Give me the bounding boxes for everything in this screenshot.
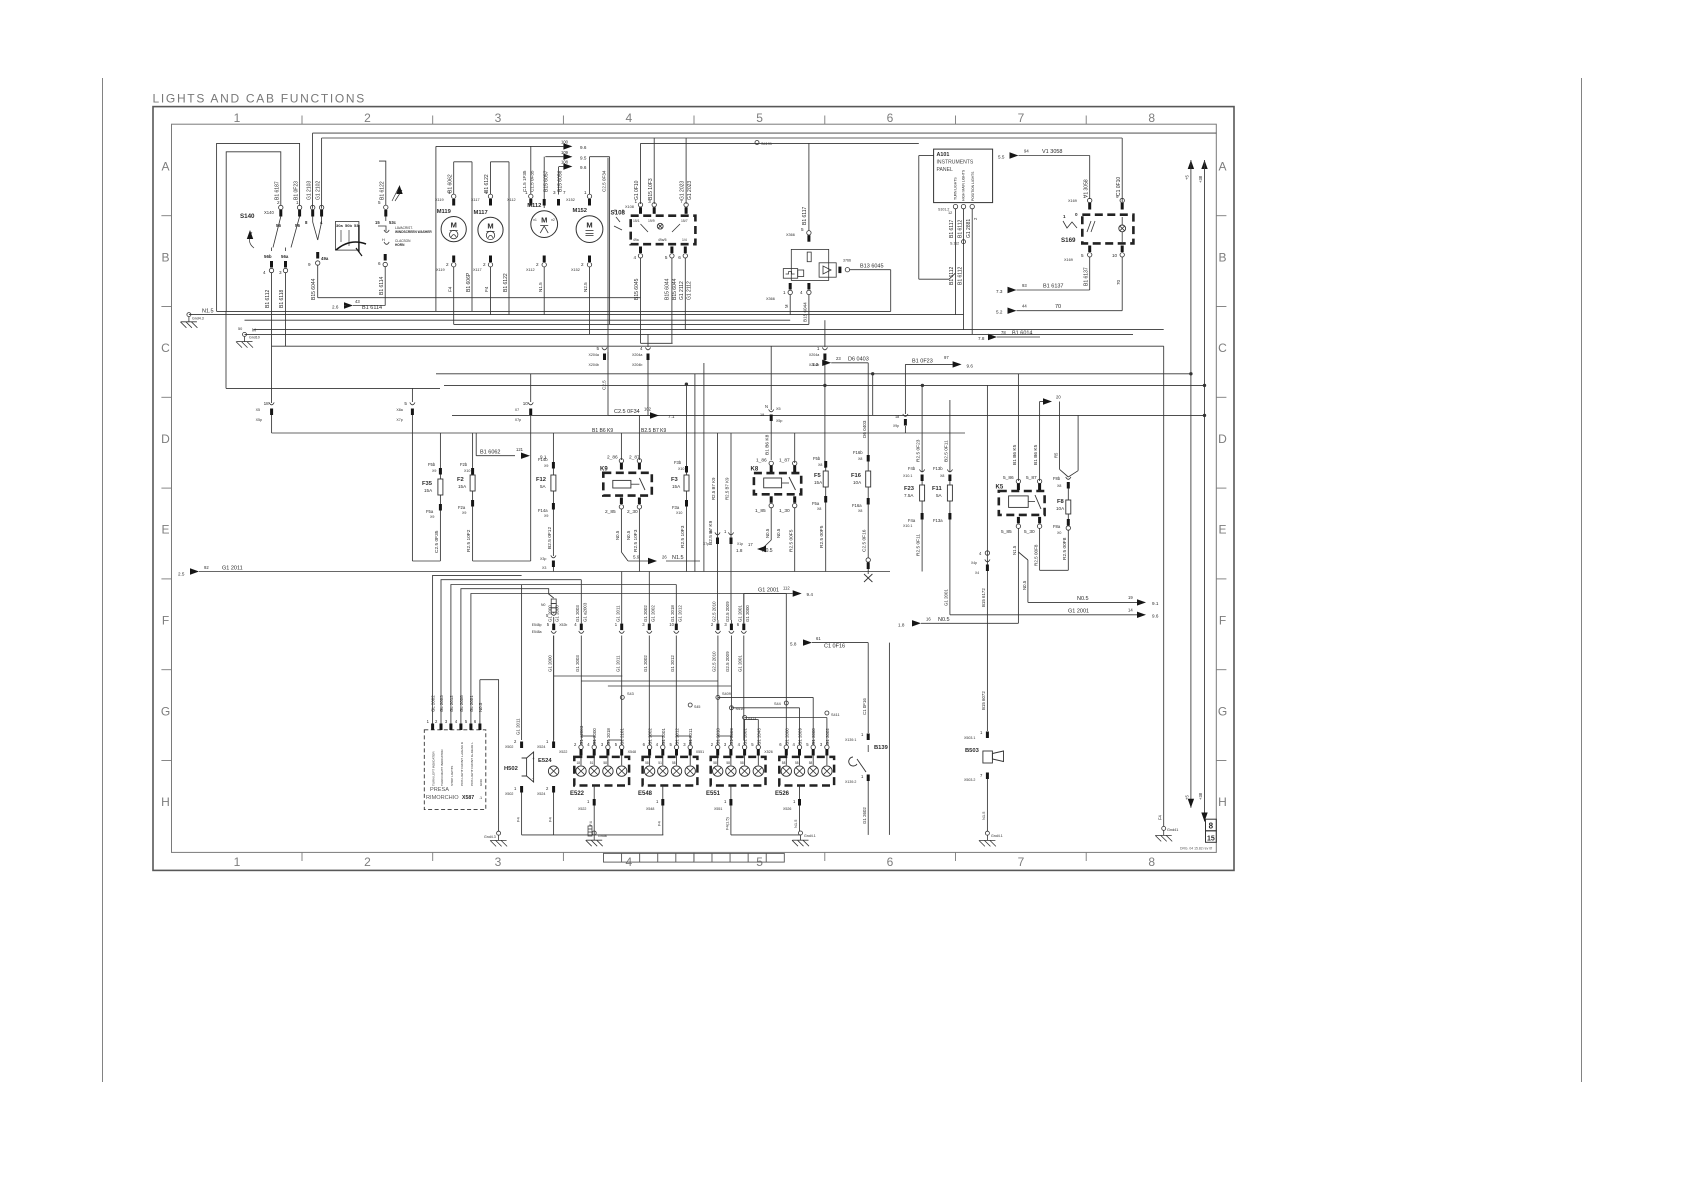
band cross links: [554, 675, 623, 677]
svg-text:S43: S43: [627, 692, 634, 696]
svg-text:M: M: [451, 221, 457, 230]
svg-text:B1 6112: B1 6112: [949, 267, 955, 285]
svg-text:G1 2881: G1 2881: [966, 219, 972, 238]
svg-text:G1 2018: G1 2018: [606, 728, 611, 745]
wire B1 6112: [271, 273, 273, 403]
svg-text:53c: 53c: [389, 220, 397, 225]
M152 feed wires: [590, 156, 610, 158]
long verticals G2.5: [717, 433, 719, 620]
svg-text:1_85: 1_85: [755, 508, 766, 514]
svg-text:C1 0F16: C1 0F16: [862, 698, 867, 715]
svg-text:15A: 15A: [424, 488, 433, 493]
svg-text:X8: X8: [1057, 484, 1061, 488]
svg-text:X9: X9: [432, 469, 436, 473]
svg-text:Gnd4.3: Gnd4.3: [484, 835, 496, 839]
svg-text:B1 6114: B1 6114: [379, 277, 385, 295]
svg-text:5_87: 5_87: [1026, 475, 1037, 481]
svg-text:15A: 15A: [672, 484, 681, 489]
svg-text:4: 4: [634, 255, 637, 260]
svg-text:100: 100: [561, 140, 569, 145]
svg-text:3: 3: [553, 190, 556, 195]
motor M112: [531, 211, 558, 238]
svg-text:X1p: X1p: [737, 542, 743, 546]
svg-text:X8: X8: [940, 474, 944, 478]
svg-text:B1 6137: B1 6137: [1084, 267, 1090, 286]
svg-text:E548p: E548p: [532, 623, 542, 627]
svg-text:H: H: [161, 795, 170, 809]
svg-text:+38: +38: [1198, 175, 1203, 183]
svg-text:S169: S169: [1061, 237, 1076, 244]
svg-text:70: 70: [1116, 279, 1121, 285]
svg-text:X9p: X9p: [893, 424, 899, 428]
svg-text:E526: E526: [775, 791, 790, 797]
svg-text:B15 6045: B15 6045: [634, 278, 640, 300]
svg-text:G2.5 2009: G2.5 2009: [725, 601, 730, 622]
svg-text:M119: M119: [437, 209, 452, 215]
svg-text:G1 2011: G1 2011: [222, 565, 243, 571]
svg-text:F8b: F8b: [1053, 476, 1061, 481]
svg-text:F16b: F16b: [853, 450, 863, 455]
PRESA feeder wire 6: [479, 680, 481, 724]
S108 bottom pins: [639, 247, 642, 254]
wire bus C7: [272, 345, 1164, 347]
svg-text:58: 58: [726, 761, 730, 765]
arrow 109 9.5: [545, 156, 563, 158]
svg-text:16: 16: [926, 617, 931, 622]
svg-text:G1 2001: G1 2001: [944, 589, 949, 606]
svg-text:0: 0: [1075, 212, 1078, 217]
svg-text:E551: E551: [706, 791, 721, 797]
wire bus y143.4: [641, 142, 919, 144]
junction S4191: [755, 141, 759, 145]
flasher output wire B13 6045: [838, 267, 841, 274]
svg-text:X9: X9: [430, 515, 434, 519]
svg-text:S4191: S4191: [761, 142, 772, 146]
svg-text:X551: X551: [714, 807, 722, 811]
fuse F5: [825, 462, 827, 468]
svg-text:G1 2101: G1 2101: [620, 728, 625, 745]
svg-text:n2: n2: [551, 218, 555, 222]
svg-text:X9: X9: [544, 514, 548, 518]
svg-text:X117: X117: [473, 268, 482, 272]
svg-text:N0.5: N0.5: [478, 702, 483, 712]
svg-text:B1 B6 K5: B1 B6 K5: [1012, 444, 1018, 465]
svg-text:G1 2103: G1 2103: [307, 181, 313, 200]
svg-text:C1.5 0F35: C1.5 0F35: [530, 170, 535, 192]
wire bus C6 M: [245, 333, 1134, 335]
fuse F11: [949, 400, 951, 472]
svg-text:F2b: F2b: [460, 462, 468, 467]
svg-text:R2.5 0F23: R2.5 0F23: [916, 439, 922, 462]
lamp cluster E522: [574, 757, 629, 786]
svg-text:9.6: 9.6: [580, 165, 587, 170]
svg-text:F3: F3: [671, 477, 679, 483]
svg-text:R2.5 0F11: R2.5 0F11: [916, 534, 922, 556]
svg-text:94: 94: [1024, 149, 1029, 154]
svg-text:X5p: X5p: [256, 418, 262, 422]
S169 lamp: [1119, 225, 1126, 232]
svg-text:X204a: X204a: [589, 353, 599, 357]
svg-text:112: 112: [783, 585, 790, 590]
svg-text:5: 5: [378, 200, 381, 205]
svg-text:1: 1: [1063, 214, 1066, 219]
svg-text:18: 18: [577, 761, 581, 765]
svg-text:X10: X10: [464, 469, 470, 473]
svg-text:F16: F16: [851, 473, 862, 479]
svg-text:R2.5 00F8: R2.5 00F8: [1062, 537, 1068, 560]
svg-text:7.5A: 7.5A: [904, 493, 914, 498]
arrow B1 6114 2.6: [353, 305, 385, 307]
svg-text:G1 2000: G1 2000: [784, 728, 789, 745]
svg-text:6: 6: [678, 255, 681, 260]
svg-text:N2.5: N2.5: [583, 282, 588, 292]
svg-text:3: 3: [495, 111, 502, 125]
wire bus C11: [452, 414, 1205, 416]
svg-text:B15 6056: B15 6056: [558, 170, 564, 192]
svg-text:7.1: 7.1: [668, 414, 675, 419]
svg-text:M: M: [784, 304, 789, 308]
svg-text:G1 2002: G1 2002: [650, 605, 655, 622]
svg-text:B1 6062: B1 6062: [448, 174, 454, 193]
svg-text:M: M: [586, 221, 592, 230]
svg-text:F4: F4: [516, 817, 521, 822]
svg-text:10: 10: [523, 401, 529, 406]
page edge line left: [102, 78, 104, 1082]
svg-text:N1.5: N1.5: [202, 308, 214, 314]
E526 feeders: [785, 594, 787, 746]
svg-text:5A: 5A: [540, 484, 547, 489]
svg-text:B15 6044: B15 6044: [665, 278, 671, 300]
svg-text:1: 1: [817, 346, 820, 351]
svg-text:5.8: 5.8: [790, 642, 797, 647]
svg-text:X10.1: X10.1: [903, 524, 912, 528]
svg-text:X7p: X7p: [515, 418, 521, 422]
svg-text:4: 4: [800, 290, 803, 295]
E548 fan wires: [648, 740, 650, 745]
svg-text:G1 2011: G1 2011: [616, 605, 621, 622]
svg-text:X8: X8: [817, 507, 821, 511]
svg-text:GL 2012: GL 2012: [449, 695, 454, 712]
wire bus C12: [272, 432, 965, 434]
svg-text:B1 6112: B1 6112: [958, 220, 964, 238]
junction S409: [716, 695, 720, 699]
svg-text:G2.5 2010: G2.5 2010: [712, 601, 717, 622]
svg-text:G1 2012: G1 2012: [677, 605, 682, 622]
svg-text:M: M: [541, 216, 547, 225]
svg-text:G1 2043: G1 2043: [756, 728, 761, 745]
svg-text:S140: S140: [240, 213, 255, 220]
svg-text:2.6: 2.6: [332, 305, 339, 310]
M117 feed wires: [491, 161, 510, 163]
svg-text:C2.5: C2.5: [602, 380, 607, 390]
svg-text:F4a: F4a: [908, 518, 916, 523]
svg-text:4: 4: [626, 111, 633, 125]
svg-text:B1 6062: B1 6062: [480, 449, 501, 455]
washer contact: [378, 226, 386, 231]
svg-text:N0.5: N0.5: [776, 528, 781, 538]
svg-text:F8a: F8a: [1053, 524, 1061, 529]
svg-text:M112: M112: [527, 203, 541, 209]
relay K9: [603, 473, 652, 496]
svg-text:X548: X548: [646, 807, 654, 811]
svg-text:X526: X526: [783, 807, 791, 811]
svg-text:109: 109: [561, 150, 569, 155]
svg-text:F2a: F2a: [458, 505, 466, 510]
svg-text:15/1: 15/1: [633, 219, 640, 223]
svg-text:7: 7: [1018, 855, 1025, 869]
svg-text:1: 1: [234, 111, 241, 125]
svg-text:X7p: X7p: [396, 418, 402, 422]
svg-text:Gnd4.1: Gnd4.1: [804, 834, 816, 838]
svg-text:Gnd8: Gnd8: [598, 834, 607, 838]
svg-text:19: 19: [1128, 595, 1133, 600]
svg-text:B15 6044: B15 6044: [311, 278, 317, 300]
svg-text:X548: X548: [628, 750, 636, 754]
svg-text:1.8: 1.8: [898, 622, 905, 627]
svg-text:9.6: 9.6: [1152, 614, 1159, 619]
svg-text:K5: K5: [996, 485, 1004, 491]
svg-text:G1 2102: G1 2102: [316, 181, 322, 200]
svg-text:1_86: 1_86: [756, 458, 767, 464]
dashed lever arrows: [392, 187, 399, 201]
svg-text:2: 2: [581, 262, 584, 267]
bottom cell strip: [604, 853, 785, 862]
svg-text:X3p: X3p: [540, 557, 546, 561]
svg-text:Gnd10: Gnd10: [249, 336, 260, 340]
arrow C2.5 0F34: [608, 415, 650, 417]
svg-text:5.5: 5.5: [998, 155, 1005, 160]
svg-text:15A: 15A: [458, 484, 467, 489]
svg-text:G1 2000: G1 2000: [548, 655, 553, 672]
svg-text:A: A: [1218, 160, 1226, 174]
svg-text:H502: H502: [504, 766, 518, 772]
svg-text:F5b: F5b: [813, 456, 821, 461]
svg-text:HORN: HORN: [395, 243, 405, 247]
junction circles top lamps: [743, 716, 747, 720]
fuse F35: [439, 433, 441, 468]
svg-text:F8: F8: [1057, 499, 1065, 505]
wire bus C1: [217, 310, 891, 312]
svg-text:F2: F2: [457, 477, 464, 483]
wire bus C9: [444, 384, 1205, 386]
svg-text:108: 108: [561, 160, 569, 165]
svg-text:X8: X8: [818, 463, 822, 467]
svg-text:5: 5: [404, 401, 407, 406]
svg-text:5: 5: [801, 227, 804, 232]
svg-text:N1.5: N1.5: [672, 555, 684, 561]
S108 wires down: [640, 258, 642, 343]
svg-text:5: 5: [597, 346, 600, 351]
svg-text:N1.5: N1.5: [538, 282, 543, 292]
svg-text:9.6: 9.6: [967, 363, 974, 368]
wire bus C10: [226, 387, 440, 389]
fuse F8: [1039, 402, 1041, 482]
nested route 1: [433, 575, 522, 723]
E551 fan wires: [717, 740, 719, 745]
svg-text:51: 51: [658, 761, 662, 765]
svg-text:G1 2001: G1 2001: [758, 588, 779, 594]
S140 inner loop wire: [226, 152, 281, 312]
svg-text:S411: S411: [831, 713, 840, 717]
svg-text:.1: .1: [479, 796, 482, 800]
arrow 108 9.6: [559, 166, 563, 168]
svg-text:3766: 3766: [843, 259, 851, 263]
svg-text:9.4: 9.4: [807, 592, 814, 597]
fuse F16: [867, 363, 869, 455]
svg-text:S.112: S.112: [950, 242, 959, 246]
wire bus C3: [245, 319, 791, 321]
svg-text:X204b: X204b: [589, 363, 599, 367]
svg-text:POS LIGHT FRONT L+REAR R: POS LIGHT FRONT L+REAR R: [460, 741, 464, 786]
svg-text:61: 61: [816, 636, 821, 641]
svg-text:F3a: F3a: [672, 505, 680, 510]
svg-text:1_87: 1_87: [779, 458, 790, 464]
junction dots right verticals: [1189, 372, 1192, 375]
svg-text:3: 3: [495, 855, 502, 869]
svg-text:X5p: X5p: [776, 419, 782, 423]
lamp cluster E548: [643, 757, 698, 786]
svg-text:RIMORCHIO: RIMORCHIO: [426, 795, 459, 801]
wire G1 2001 column: [743, 594, 745, 624]
svg-text:M: M: [252, 328, 256, 333]
svg-text:H: H: [1218, 795, 1227, 809]
svg-text:2_86: 2_86: [607, 455, 618, 461]
S108 lamp: [657, 223, 663, 229]
svg-text:B15 6057: B15 6057: [544, 170, 550, 192]
relay K8: [754, 473, 801, 494]
svg-text:N0.5: N0.5: [626, 530, 631, 540]
svg-text:2: 2: [446, 262, 449, 267]
svg-text:E522: E522: [570, 791, 585, 797]
svg-text:B1 B6 K5: B1 B6 K5: [1033, 444, 1039, 465]
arrow N1.5 26: [628, 560, 648, 562]
svg-text:C2.5 0F34: C2.5 0F34: [602, 170, 607, 192]
svg-text:10A: 10A: [1056, 506, 1065, 511]
svg-text:C: C: [161, 341, 170, 355]
svg-text:X4: X4: [975, 571, 979, 575]
svg-text:G1 2001: G1 2001: [738, 655, 743, 672]
svg-text:F4: F4: [448, 286, 453, 292]
svg-text:X119: X119: [435, 198, 444, 202]
svg-text:B1 606P: B1 606P: [466, 272, 472, 292]
svg-text:X503.1: X503.1: [964, 736, 975, 740]
svg-text:A: A: [161, 160, 169, 174]
svg-text:G1 2023: G1 2023: [680, 181, 686, 200]
svg-text:2: 2: [536, 262, 539, 267]
svg-text:TURN RIGHT INDICATOR: TURN RIGHT INDICATOR: [440, 749, 444, 786]
svg-text:+: +: [532, 756, 535, 761]
svg-text:X4p: X4p: [971, 561, 977, 565]
wire +5 vertical right: [1188, 160, 1194, 169]
svg-text:E524: E524: [538, 758, 552, 764]
svg-text:X0: X0: [1057, 531, 1061, 535]
svg-text:2_87: 2_87: [629, 455, 640, 461]
junction S44 S411: [784, 701, 788, 705]
svg-text:G1 2003: G1 2003: [575, 605, 580, 622]
sheet number boxes: [1206, 819, 1217, 831]
svg-text:F4b: F4b: [908, 466, 916, 471]
svg-text:14: 14: [1128, 608, 1133, 613]
wire B1 6137 down: [1089, 257, 1091, 290]
fuse F23: [921, 385, 923, 472]
wire bus N1.5: [189, 314, 964, 316]
svg-text:F4: F4: [1158, 814, 1163, 820]
nested route 5: [471, 594, 786, 724]
svg-text:X551: X551: [696, 750, 704, 754]
svg-text:4: 4: [263, 270, 266, 275]
svg-text:58: 58: [713, 761, 717, 765]
svg-text:58: 58: [672, 761, 676, 765]
arrow G1 2001 14 9.6: [950, 614, 1137, 616]
svg-text:B1 0F23: B1 0F23: [294, 181, 300, 200]
svg-text:2: 2: [483, 262, 486, 267]
wire +38 vertical right: [1201, 160, 1207, 169]
svg-text:G1 2000: G1 2000: [548, 605, 553, 622]
svg-text:8: 8: [1209, 822, 1214, 831]
svg-text:B1 B6 K8: B1 B6 K8: [765, 434, 771, 455]
svg-text:D: D: [1218, 432, 1227, 446]
wire verticals to lamp pins: [553, 700, 555, 740]
svg-text:F13a: F13a: [933, 518, 943, 523]
ground top left 1: [188, 317, 190, 322]
svg-text:30a: 30a: [336, 223, 343, 228]
svg-text:G1 2001: G1 2001: [738, 605, 743, 622]
svg-text:Gnd4.3: Gnd4.3: [192, 317, 204, 321]
svg-text:F23: F23: [904, 486, 915, 492]
svg-text:X152: X152: [571, 268, 580, 272]
svg-text:G1 2002: G1 2002: [643, 605, 648, 622]
wire B15 6072 B503: [986, 385, 988, 731]
svg-text:15: 15: [1207, 835, 1215, 842]
svg-text:X204b: X204b: [632, 363, 642, 367]
svg-text:G1 2001: G1 2001: [743, 728, 748, 745]
svg-text:56b: 56b: [264, 254, 272, 259]
connector stack X5: [551, 599, 556, 603]
svg-text:19/9: 19/9: [648, 219, 655, 223]
svg-text:PRESA: PRESA: [430, 787, 449, 793]
svg-text:N1.5: N1.5: [981, 811, 986, 820]
svg-text:X3: X3: [542, 566, 546, 570]
svg-text:58: 58: [782, 761, 786, 765]
svg-text:6: 6: [378, 261, 381, 266]
svg-text:B503: B503: [965, 748, 980, 754]
junction S410: [729, 706, 733, 710]
svg-text:STOP LIGHTS: STOP LIGHTS: [450, 766, 454, 786]
svg-text:E: E: [161, 523, 169, 537]
wire B15 6044 left: [317, 265, 319, 298]
svg-text:49a: 49a: [633, 238, 639, 242]
A101 left loop wire: [919, 155, 934, 157]
svg-text:F14b: F14b: [538, 457, 548, 462]
svg-text:R2.5 B7 K9: R2.5 B7 K9: [725, 477, 730, 500]
sensor B503: [983, 751, 993, 763]
svg-text:F5a: F5a: [426, 509, 434, 514]
svg-text:58: 58: [809, 761, 813, 765]
svg-text:X366: X366: [786, 233, 795, 237]
svg-text:INSTRUMENTS: INSTRUMENTS: [937, 160, 974, 166]
svg-text:G2.5 2010: G2.5 2010: [712, 651, 717, 672]
svg-text:B1 6112: B1 6112: [958, 267, 964, 285]
svg-text:5.2: 5.2: [996, 310, 1003, 315]
svg-text:X152: X152: [566, 198, 575, 202]
svg-text:F13b: F13b: [933, 466, 943, 471]
svg-text:n1: n1: [533, 218, 537, 222]
svg-text:49a: 49a: [321, 256, 329, 261]
svg-text:B15 6072: B15 6072: [981, 691, 986, 710]
page edge line right: [1581, 78, 1583, 1082]
svg-text:B1 6114: B1 6114: [362, 305, 382, 311]
outer border: [153, 107, 1234, 871]
